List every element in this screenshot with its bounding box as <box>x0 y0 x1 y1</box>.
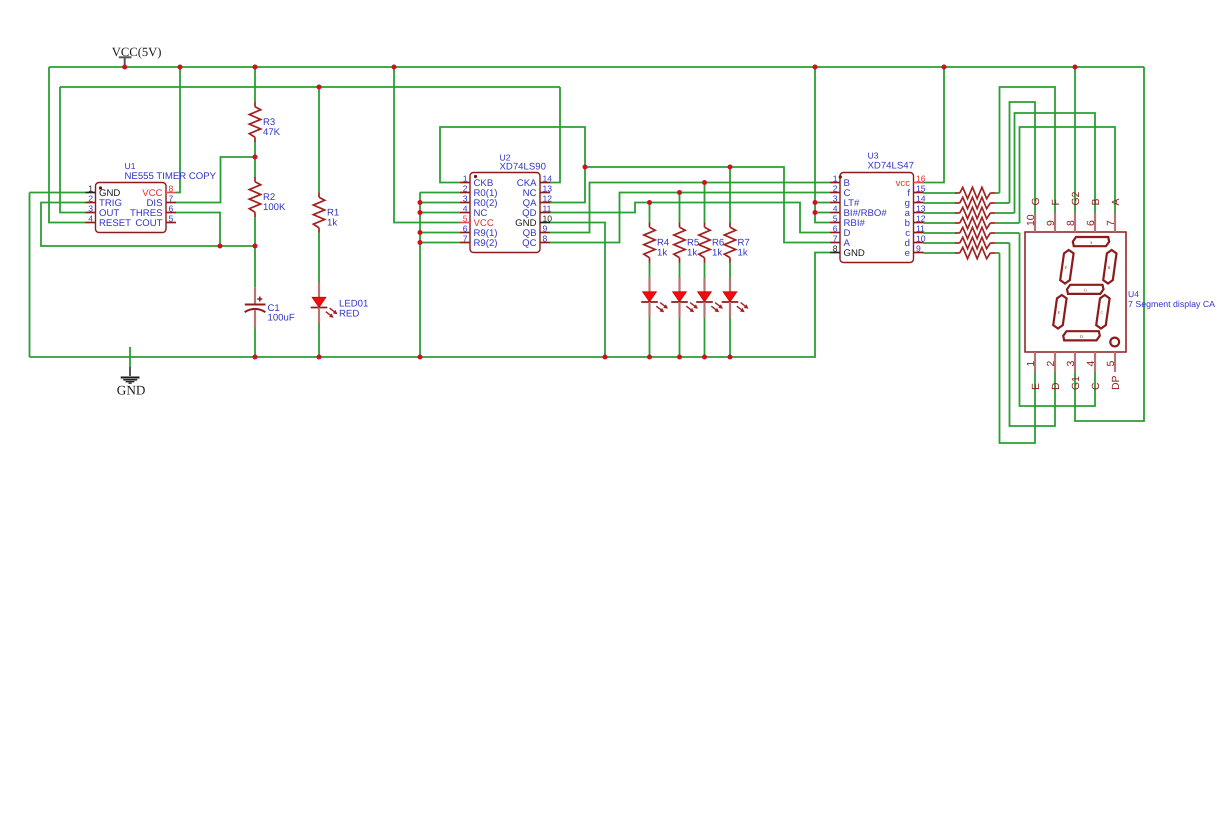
display pin 7 A (top) <box>1114 213 1116 232</box>
junction U2 pin3 <box>418 200 423 205</box>
svg-text:2: 2 <box>88 193 93 203</box>
op-amp U1 NE555 TIMER COPY <box>86 161 217 233</box>
wire RESET to VCC rail <box>49 67 86 223</box>
display pin 9 F (top) <box>1054 213 1056 232</box>
wire resistor out y=243 <box>995 242 1010 244</box>
junction LED01 gnd <box>317 355 322 360</box>
svg-text:14: 14 <box>543 173 553 183</box>
display pin 3 G1 (bottom) <box>1074 352 1076 372</box>
svg-text:GND: GND <box>117 382 146 397</box>
junction R2/C1 <box>253 244 258 249</box>
junction R4 tap <box>647 200 652 205</box>
svg-text:e: e <box>905 248 910 259</box>
wire U2 reset pins ground drop <box>419 193 421 358</box>
wire e to display E <box>1000 253 1036 443</box>
svg-text:47K: 47K <box>263 127 281 138</box>
svg-text:2: 2 <box>833 183 838 193</box>
wire resistor out y=213 <box>995 212 1015 214</box>
wire QC to U3 C <box>550 193 830 243</box>
wire U3 pin to resistor y=253 <box>924 252 956 254</box>
svg-text:8: 8 <box>169 183 174 193</box>
resistor R2 <box>254 177 256 182</box>
wire LED to ground x=649.5 <box>649 318 651 358</box>
wire R1 to LED01 <box>318 233 320 284</box>
decoder U3 XD74LS47 <box>830 151 926 263</box>
resistor R1 <box>318 193 320 198</box>
wire U1 VCC pin8 up <box>176 67 180 193</box>
junction LT# tap <box>813 200 818 205</box>
svg-text:11: 11 <box>916 223 925 233</box>
svg-text:E: E <box>1058 310 1061 315</box>
junction R3 top <box>253 65 258 70</box>
segment A <box>1073 237 1109 246</box>
junction R6 tap <box>702 180 707 185</box>
junction U1 pin8 <box>178 65 183 70</box>
resistor R6 <box>704 223 706 228</box>
svg-text:12: 12 <box>916 213 926 223</box>
junction U3 vcc <box>942 65 947 70</box>
display pin 5 DP (bottom) <box>1114 352 1116 372</box>
svg-text:C: C <box>1091 382 1102 390</box>
wire R3-R2 link <box>254 142 256 177</box>
svg-text:VCC(5V): VCC(5V) <box>112 45 162 59</box>
svg-text:3: 3 <box>88 203 93 213</box>
svg-text:XD74LS47: XD74LS47 <box>868 161 914 172</box>
wire BI#/RBO# tap <box>815 212 830 214</box>
wire U2 pin3 tap <box>420 202 460 204</box>
wire U3 vcc pin16 up <box>924 67 945 183</box>
display pin 8 G2 (top) <box>1074 213 1076 232</box>
junction U2 pin7 <box>418 240 423 245</box>
junction R5 tap <box>677 190 682 195</box>
svg-text:100uF: 100uF <box>268 313 295 324</box>
svg-text:13: 13 <box>916 203 926 213</box>
wire g to display G <box>1010 102 1036 213</box>
wire R4 riser <box>649 203 651 223</box>
svg-text:6: 6 <box>1086 220 1097 226</box>
junction U2 pin4 <box>418 210 423 215</box>
svg-text:8: 8 <box>1066 220 1077 226</box>
svg-text:10: 10 <box>543 213 553 223</box>
wire display G1 to VCC rail <box>1075 67 1144 421</box>
svg-text:B: B <box>1091 199 1102 206</box>
wire rail2 to CKA <box>550 87 560 183</box>
wire U2 pin2 tap <box>420 192 460 194</box>
resistor R4 <box>649 223 651 228</box>
wire CKB-QA loop <box>440 127 585 203</box>
svg-text:COUT: COUT <box>135 218 162 229</box>
LED under R5 <box>671 278 698 318</box>
svg-text:R9(2): R9(2) <box>474 238 498 249</box>
segment B <box>1103 250 1116 284</box>
svg-text:G1: G1 <box>1071 376 1082 390</box>
capacitor C1 polarized <box>245 287 266 327</box>
resistor RN4 (segment series) <box>955 222 960 224</box>
wire GND stub <box>129 347 131 367</box>
display pin 6 B (top) <box>1094 213 1096 232</box>
wire VCC2 rail (OUT net) <box>60 86 560 88</box>
VCC power symbol <box>119 56 132 58</box>
wire U1 GND pin1 <box>30 192 86 194</box>
LED under R6 <box>696 278 723 318</box>
display pin 4 C (bottom) <box>1094 352 1096 372</box>
junction LED4 gnd <box>702 355 707 360</box>
wire OUT to rail2 <box>60 87 86 213</box>
resistor R5 <box>679 223 681 228</box>
svg-text:100K: 100K <box>263 202 286 213</box>
wire QD to U3 D <box>550 203 830 233</box>
svg-text:1: 1 <box>463 173 468 183</box>
wire U3 pin to resistor y=243 <box>924 242 956 244</box>
junction U2 pin6 <box>418 230 423 235</box>
wire U3 pin to resistor y=193 <box>924 192 956 194</box>
svg-text:1k: 1k <box>327 218 337 229</box>
svg-text:5: 5 <box>833 213 838 223</box>
svg-text:8: 8 <box>833 243 838 253</box>
counter U2 XD74LS90 <box>460 153 552 253</box>
junction LED2 gnd <box>647 355 652 360</box>
resistor R3 <box>254 102 256 107</box>
svg-text:9: 9 <box>916 243 921 253</box>
wire resistor out y=193 <box>995 192 1000 194</box>
svg-text:8: 8 <box>543 233 548 243</box>
svg-text:RESET: RESET <box>99 218 131 229</box>
resistor RN5 (segment series) <box>955 232 960 234</box>
wire ground rail <box>30 253 831 358</box>
junction U2 pins gnd <box>418 355 423 360</box>
svg-text:A: A <box>1111 199 1122 206</box>
svg-text:11: 11 <box>543 203 552 213</box>
wire LED to ground x=704.5 <box>704 318 706 358</box>
junction U3 LT net <box>813 65 818 70</box>
svg-text:7: 7 <box>1106 220 1117 226</box>
wire VCC top rail <box>49 66 1144 68</box>
wire R7 riser <box>729 167 731 223</box>
wire C1 to ground rail <box>254 327 256 357</box>
svg-text:4: 4 <box>833 203 838 213</box>
junction C1 gnd <box>253 355 258 360</box>
svg-text:4: 4 <box>1086 361 1097 367</box>
segment D <box>1063 331 1100 340</box>
wire QB to U3 B <box>550 183 830 233</box>
svg-text:10: 10 <box>1026 214 1037 226</box>
wire U2 pin7 tap <box>420 242 460 244</box>
svg-text:RED: RED <box>339 309 359 320</box>
wire QA to U3 A <box>585 167 830 243</box>
wire resistor out y=203 <box>995 202 1010 204</box>
svg-text:1: 1 <box>1026 361 1037 367</box>
junction R3/R2/DIS node <box>253 155 258 160</box>
junction BI# tap <box>813 210 818 215</box>
wire U2 VCC pin5 <box>394 67 460 223</box>
svg-text:6: 6 <box>833 223 838 233</box>
wire resistor out y=233 <box>995 232 1020 234</box>
ground symbol GND <box>129 367 131 376</box>
svg-text:4: 4 <box>88 213 93 223</box>
svg-text:13: 13 <box>543 183 553 193</box>
svg-text:7 Segment display CA: 7 Segment display CA <box>1128 299 1215 309</box>
wire left ground drop <box>29 193 31 358</box>
wire d to display D <box>1010 243 1056 426</box>
resistor RN1 (segment series) <box>955 192 960 194</box>
wire U3 pin to resistor y=203 <box>924 202 956 204</box>
LED under R7 <box>722 278 749 318</box>
svg-text:7: 7 <box>833 233 838 243</box>
svg-text:U3: U3 <box>868 151 879 161</box>
svg-text:5: 5 <box>169 213 174 223</box>
svg-text:D: D <box>1080 334 1083 339</box>
segment G <box>1067 285 1104 294</box>
junction U2 gnd <box>603 355 608 360</box>
svg-text:6: 6 <box>169 203 174 213</box>
wire R3 top <box>254 67 256 102</box>
junction THRES/TRIG <box>218 244 223 249</box>
wire a to display B <box>1015 113 1096 213</box>
resistor RN2 (segment series) <box>955 202 960 204</box>
wire TRIG net <box>41 203 255 247</box>
junction LED5 gnd <box>728 355 733 360</box>
svg-text:B: B <box>1107 265 1110 270</box>
resistor RN6 (segment series) <box>955 242 960 244</box>
wire b to display A <box>1020 127 1116 223</box>
display pin 1 E (bottom) <box>1034 352 1036 372</box>
wire LED01 to ground <box>318 323 320 357</box>
svg-text:1k: 1k <box>712 248 722 259</box>
svg-text:G: G <box>1084 288 1087 293</box>
wire c to display C <box>1020 233 1096 406</box>
svg-text:G: G <box>1031 197 1042 205</box>
svg-text:14: 14 <box>916 193 926 203</box>
wire LED to ground x=679.5 <box>679 318 681 358</box>
LED under R4 <box>641 278 668 318</box>
wire VCC to display G2 <box>1074 67 1076 213</box>
resistor RN7 (segment series) <box>955 252 960 254</box>
svg-text:9: 9 <box>1046 220 1057 226</box>
svg-text:3: 3 <box>1066 361 1077 367</box>
wire R-LED link x=649.5 <box>649 263 651 278</box>
segment F <box>1060 250 1073 284</box>
wire R-LED link x=679.5 <box>679 263 681 278</box>
wire U3 pin to resistor y=233 <box>924 232 956 234</box>
display pin 2 D (bottom) <box>1054 352 1056 372</box>
wire U3 pin to resistor y=213 <box>924 212 956 214</box>
svg-text:QC: QC <box>522 238 536 249</box>
svg-text:4: 4 <box>463 203 468 213</box>
junction R7 tap <box>728 165 733 170</box>
svg-text:DP: DP <box>1111 375 1122 390</box>
wire VCC drop to LT#/BI#/RBI# <box>815 67 830 223</box>
wire R2 bottom <box>254 217 256 246</box>
wire U2 GND pin10 <box>550 223 605 358</box>
svg-text:15: 15 <box>916 183 926 193</box>
svg-text:1: 1 <box>833 173 838 183</box>
junction LED3 gnd <box>677 355 682 360</box>
svg-text:U1: U1 <box>125 161 136 171</box>
wire U2 pin4 tap <box>420 212 460 214</box>
wire R5 riser <box>679 193 681 223</box>
svg-text:1: 1 <box>88 183 93 193</box>
svg-text:6: 6 <box>463 223 468 233</box>
svg-text:10: 10 <box>916 233 926 243</box>
wire LED to ground x=730 <box>729 318 731 358</box>
svg-text:G2: G2 <box>1071 191 1082 205</box>
segment E <box>1053 295 1066 329</box>
svg-text:2: 2 <box>1046 361 1057 367</box>
decimal point DP <box>1110 338 1119 347</box>
svg-text:C: C <box>1101 310 1104 315</box>
resistor RN3 (segment series) <box>955 212 960 214</box>
wire R-LED link x=730 <box>729 263 731 278</box>
svg-text:U4: U4 <box>1128 289 1139 299</box>
svg-text:9: 9 <box>543 223 548 233</box>
wire LT# tap <box>815 202 830 204</box>
wire node to C1 <box>254 246 256 287</box>
svg-text:7: 7 <box>463 233 468 243</box>
svg-text:5: 5 <box>463 213 468 223</box>
svg-text:7: 7 <box>169 193 174 203</box>
segment C <box>1096 295 1109 329</box>
wire f to display F <box>1000 87 1056 213</box>
svg-text:A: A <box>1089 240 1092 245</box>
junction VCC symbol <box>122 65 127 70</box>
wire resistor out y=253 <box>995 252 1000 254</box>
svg-text:NE555 TIMER COPY: NE555 TIMER COPY <box>125 171 217 182</box>
7-segment display U4 box <box>1025 232 1126 352</box>
svg-text:2: 2 <box>463 183 468 193</box>
svg-text:XD74LS90: XD74LS90 <box>500 161 546 172</box>
svg-text:3: 3 <box>833 193 838 203</box>
svg-text:F: F <box>1051 199 1062 205</box>
svg-text:E: E <box>1031 383 1042 390</box>
wire DIS to R3/R2 node <box>176 157 255 203</box>
wire U2 pin6 tap <box>420 232 460 234</box>
svg-text:GND: GND <box>844 248 865 259</box>
junction QA node <box>583 165 588 170</box>
junction G2 net <box>1073 65 1078 70</box>
svg-text:1k: 1k <box>687 248 697 259</box>
svg-text:D: D <box>1051 382 1062 390</box>
wire resistor out y=223 <box>995 222 1020 224</box>
wire THRES down <box>176 213 220 247</box>
wire R1 top <box>318 87 320 193</box>
svg-text:1k: 1k <box>657 248 667 259</box>
svg-text:3: 3 <box>463 193 468 203</box>
junction R1 top <box>317 85 322 90</box>
svg-text:16: 16 <box>916 173 926 183</box>
wire R-LED link x=704.5 <box>704 263 706 278</box>
LED LED01 <box>311 283 338 323</box>
wire U3 pin to resistor y=223 <box>924 222 956 224</box>
svg-text:5: 5 <box>1106 361 1117 367</box>
svg-text:1k: 1k <box>738 248 748 259</box>
display pin 10 G (top) <box>1034 213 1036 232</box>
resistor R7 <box>729 223 731 228</box>
junction U2 VCC <box>392 65 397 70</box>
wire R6 riser <box>704 183 706 223</box>
svg-text:12: 12 <box>543 193 553 203</box>
